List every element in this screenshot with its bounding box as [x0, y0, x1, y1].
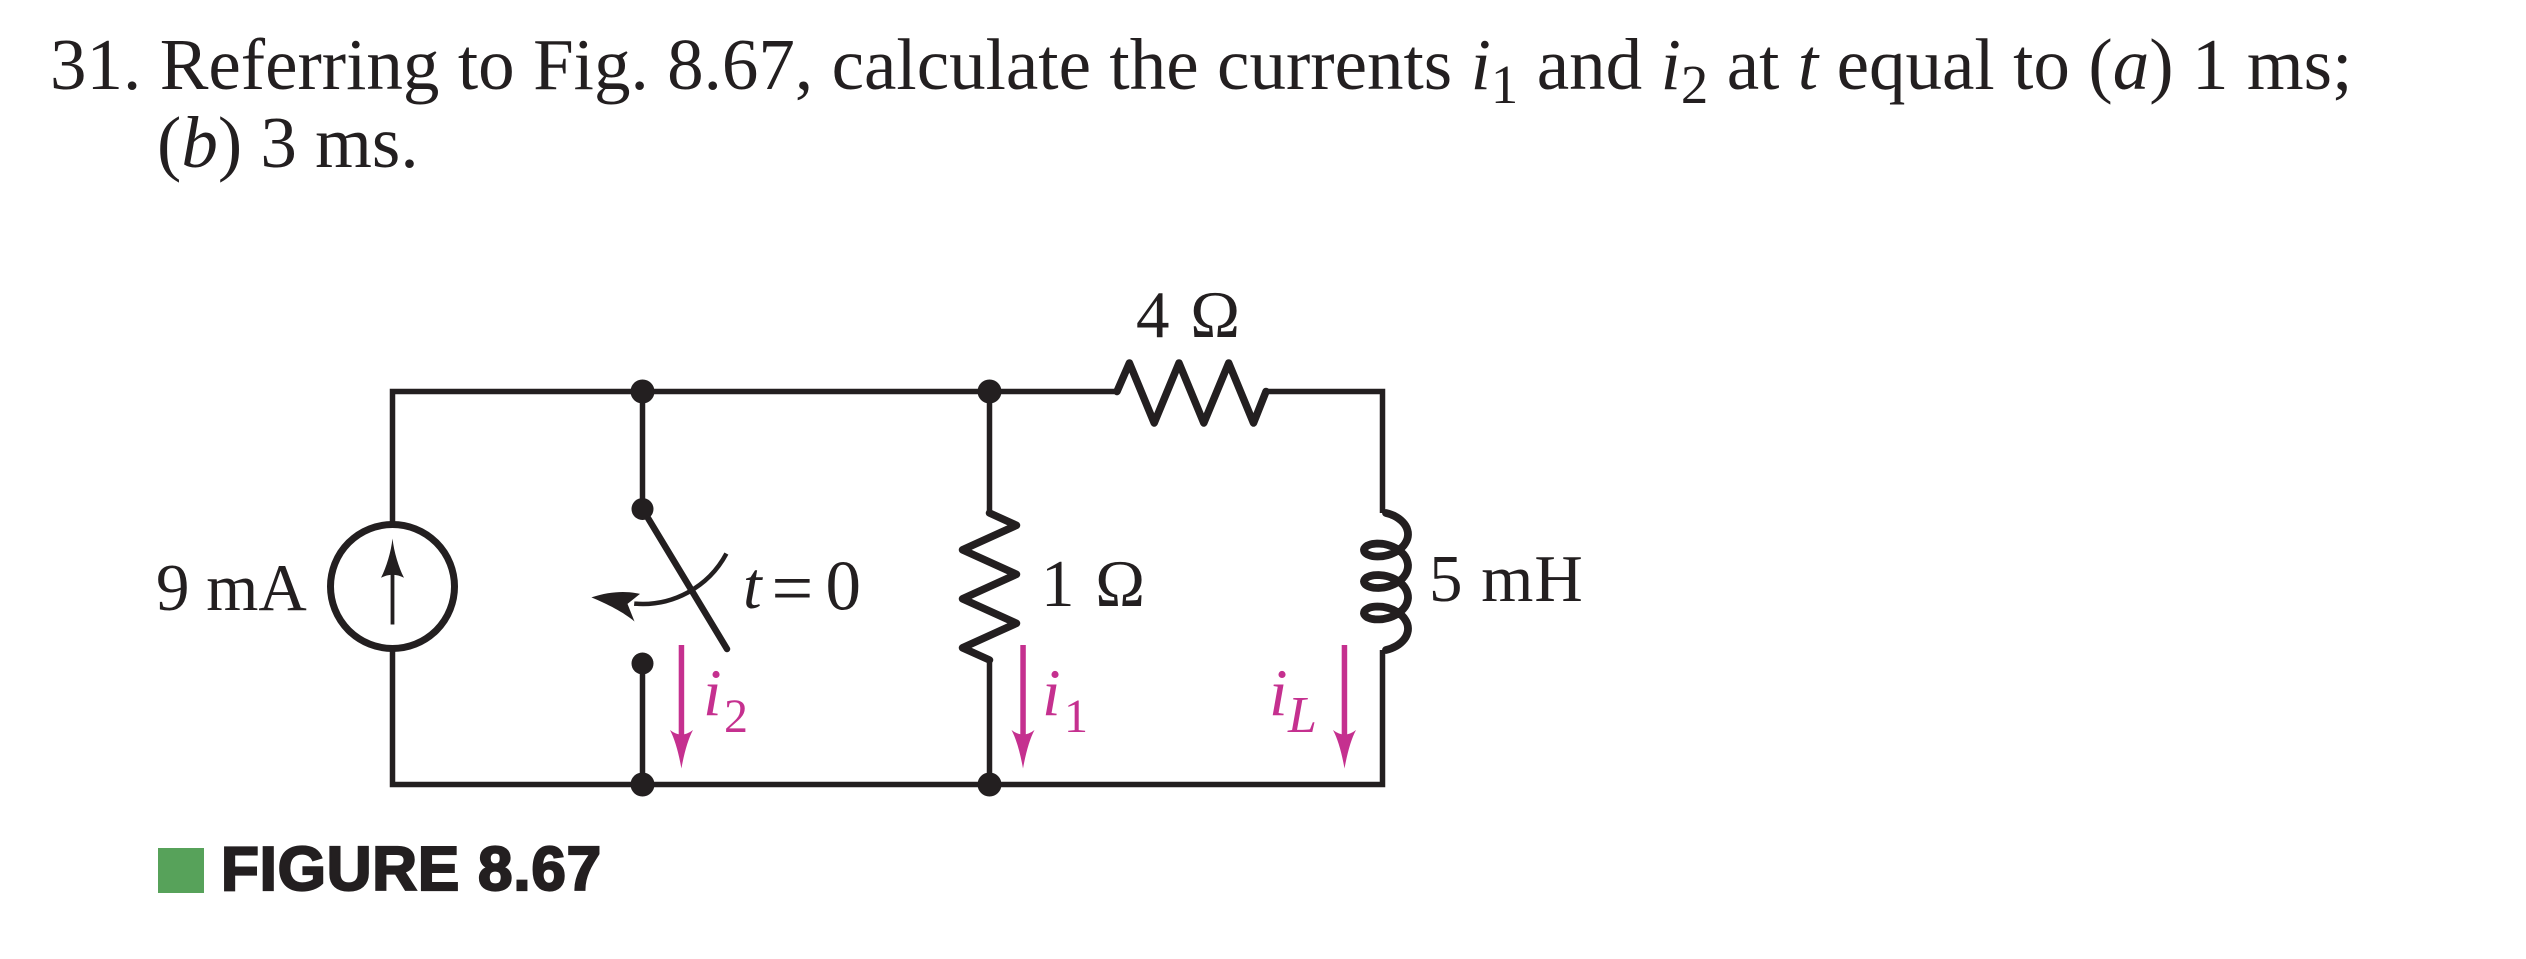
switch blade [643, 509, 728, 649]
wire top right: from 4ohm resistor to right rail down to inductor [1266, 392, 1383, 514]
wire switch branch upper [640, 392, 646, 510]
svg-text:i: i [1042, 656, 1061, 730]
svg-text:5 mH: 5 mH [1429, 542, 1584, 616]
current source arrow [391, 560, 395, 625]
switch arc arrow [634, 554, 726, 604]
resistor R 1ohm zigzag [963, 513, 1017, 660]
svg-text:4 Ω: 4 Ω [1136, 278, 1242, 352]
switch terminal dot upper [632, 498, 654, 520]
svg-text:1: 1 [1064, 690, 1088, 743]
node dot bottom switch [631, 773, 655, 797]
current source circle 9mA [331, 525, 455, 649]
current arrow i1 [1012, 645, 1035, 769]
wire top-left loop: left rail upper + top wire to 4ohm resistor [393, 392, 1118, 524]
resistor R 4ohm zigzag [1117, 363, 1266, 423]
node dot bottom 1ohm [978, 773, 1002, 797]
figure caption [221, 834, 602, 905]
wire switch branch lower [640, 664, 646, 785]
problem statement line 2 [157, 104, 419, 182]
svg-text:i: i [1269, 656, 1288, 730]
node dot top 1ohm [978, 380, 1002, 404]
current arrow iL [1333, 645, 1356, 769]
inductor L coil 5mH [1364, 513, 1408, 650]
svg-text:=: = [772, 548, 814, 630]
switch arc arrowhead [591, 592, 640, 621]
current arrow i2 [670, 645, 693, 769]
problem statement line 1 [50, 26, 2352, 104]
svg-text:9 mA: 9 mA [156, 551, 307, 625]
svg-text:2: 2 [724, 690, 748, 743]
svg-text:L: L [1287, 687, 1317, 744]
svg-text:0: 0 [826, 548, 862, 626]
svg-text:1 Ω: 1 Ω [1041, 547, 1147, 621]
node dot top switch [631, 380, 655, 404]
svg-text:i: i [703, 656, 722, 730]
wire 1ohm branch lower [987, 660, 993, 785]
svg-text:t: t [743, 549, 763, 623]
figure caption green square [158, 848, 204, 893]
switch terminal dot lower [632, 653, 654, 675]
wire bottom U: left rail lower, bottom wire, right rail lower [393, 650, 1383, 785]
wire 1ohm branch upper [987, 392, 993, 514]
